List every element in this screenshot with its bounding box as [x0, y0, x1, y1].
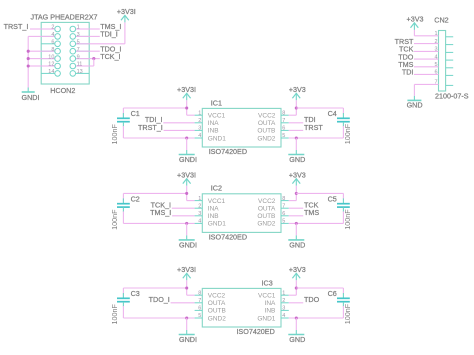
svg-text:100nF: 100nF	[110, 124, 119, 145]
svg-text:HCON2: HCON2	[50, 86, 75, 95]
wire TCK_I to pin 9	[89, 58, 100, 60]
svg-text:8: 8	[282, 196, 285, 202]
capacitor C1 top lead	[122, 108, 124, 118]
IC2 right pin 8 stub	[281, 200, 289, 202]
junction +3V3I left rail	[185, 286, 188, 289]
svg-text:+3V3I: +3V3I	[177, 85, 196, 94]
capacitor C3 top lead	[122, 288, 124, 298]
HCON2 pin 10 pad	[41, 58, 55, 60]
wire +3V3I rail to C2	[123, 192, 186, 194]
connector HCON2 body	[41, 22, 89, 84]
HCON2 pin 1 pad	[76, 28, 90, 30]
svg-text:OUTB: OUTB	[257, 128, 275, 135]
wire down to GNDI	[186, 318, 188, 330]
capacitor C3 bottom lead	[122, 302, 124, 307]
capacitor C5 plates	[337, 203, 350, 205]
junction GNDI left	[185, 316, 188, 319]
wire pin 12 to bus	[28, 65, 41, 67]
wire TDO to CN2 pin 4	[414, 58, 439, 60]
IC1 left pin 1 stub	[195, 114, 203, 116]
svg-text:OUTA: OUTA	[258, 206, 276, 213]
capacitor C1 plates	[117, 117, 130, 119]
svg-text:1: 1	[77, 25, 80, 31]
wire TDO to pin	[289, 302, 303, 304]
wire down to GNDI	[186, 223, 188, 235]
svg-text:8: 8	[51, 47, 54, 53]
svg-text:3: 3	[198, 211, 201, 217]
IC1 right pin 8 stub	[281, 114, 289, 116]
svg-text:9: 9	[77, 54, 80, 60]
HCON2 pin 4 pad	[41, 35, 55, 37]
svg-text:GND1: GND1	[208, 135, 226, 142]
ground GND (IC3 right)	[295, 330, 297, 335]
svg-text:VCC2: VCC2	[208, 293, 226, 300]
svg-text:INB: INB	[265, 308, 276, 315]
IC1 left pin 3 stub	[195, 129, 203, 131]
junction GND right	[295, 136, 298, 139]
IC2 left pin 2 stub	[195, 207, 203, 209]
CN2 pin 4 right stub	[446, 59, 454, 61]
wire TRST to pin	[289, 129, 303, 131]
junction GND right	[295, 316, 298, 319]
capacitor C2 top lead	[122, 193, 124, 203]
junction GND right	[295, 222, 298, 225]
wire C5 bottom to GND pin	[289, 222, 344, 224]
wire +3V3I rail to IC3 pin	[186, 280, 188, 295]
junction TCK_I branch	[92, 57, 95, 60]
ground GND under CN2	[413, 96, 415, 101]
wire C1 bottom to GND1 pin	[123, 137, 194, 139]
wire down to GND	[295, 318, 297, 330]
wire rail to C4	[296, 107, 343, 109]
wire TDI_I to pin	[163, 122, 194, 124]
wire rail to C6	[296, 287, 343, 289]
svg-text:TDI_I: TDI_I	[100, 30, 118, 39]
wire TDI_I to pin 3	[89, 35, 100, 37]
HCON2 pin 13 pad	[76, 72, 90, 74]
CN2 pin 5 right stub	[446, 67, 454, 69]
svg-text:VCC2: VCC2	[258, 198, 276, 205]
svg-text:5: 5	[282, 133, 285, 139]
ground GNDI (IC3 left)	[186, 330, 188, 335]
capacitor C2 plates	[117, 203, 130, 205]
svg-text:3: 3	[282, 306, 285, 312]
svg-text:14: 14	[48, 69, 54, 75]
svg-text:INB: INB	[208, 128, 219, 135]
svg-text:OUTB: OUTB	[257, 213, 275, 220]
capacitor C6 plates	[337, 297, 350, 299]
svg-text:TMS: TMS	[304, 208, 319, 217]
svg-text:1: 1	[282, 290, 285, 296]
wire TRST to CN2 pin 2	[414, 43, 439, 45]
HCON2 pin 9 pad	[76, 58, 90, 60]
capacitor C1 bottom lead	[122, 122, 124, 127]
svg-text:GND2: GND2	[208, 315, 226, 322]
svg-text:100nF: 100nF	[110, 209, 119, 230]
svg-text:+3V3I: +3V3I	[117, 7, 136, 16]
svg-text:5: 5	[282, 219, 285, 225]
IC3 left pin 5 stub	[195, 317, 203, 319]
svg-text:6: 6	[282, 126, 285, 132]
IC3 right pin 4 stub	[281, 317, 289, 319]
wire GNDI bus vertical	[27, 36, 29, 87]
wire +3V3I rail to IC2 pin	[186, 186, 188, 201]
IC2 right pin 7 stub	[281, 207, 289, 209]
svg-text:2: 2	[282, 298, 285, 304]
svg-text:VCC1: VCC1	[258, 293, 276, 300]
svg-text:+3V3I: +3V3I	[177, 265, 196, 274]
junction GNDI left	[185, 222, 188, 225]
svg-text:100nF: 100nF	[343, 303, 352, 324]
op IC IC3 body	[202, 288, 281, 327]
wire +3V3I rail to C1	[123, 107, 186, 109]
svg-text:TDI: TDI	[402, 68, 414, 77]
CN2 pin 6 right stub	[446, 74, 454, 76]
svg-text:C4: C4	[328, 109, 337, 118]
wire +3V3 to pin	[295, 186, 297, 201]
svg-text:+3V3: +3V3	[289, 170, 306, 179]
svg-text:GND: GND	[407, 100, 423, 109]
svg-text:8: 8	[198, 290, 201, 296]
svg-text:C3: C3	[131, 289, 140, 298]
svg-text:+3V3: +3V3	[289, 85, 306, 94]
svg-text:ISO7420ED: ISO7420ED	[209, 147, 247, 156]
svg-text:13: 13	[77, 69, 83, 75]
svg-text:TDO: TDO	[304, 295, 320, 304]
wire rail to C5	[296, 192, 343, 194]
wire +3V3 to pin	[295, 280, 297, 295]
svg-text:7: 7	[198, 298, 201, 304]
connector CN2 body	[439, 31, 446, 92]
svg-text:GND1: GND1	[257, 315, 275, 322]
svg-text:2: 2	[51, 25, 54, 31]
HCON2 pin 11 pad	[76, 65, 90, 67]
svg-text:JTAG PHEADER2X7: JTAG PHEADER2X7	[31, 13, 98, 22]
capacitor C5 top lead	[342, 193, 344, 199]
svg-text:3: 3	[77, 32, 80, 38]
IC1 left pin 2 stub	[195, 122, 203, 124]
svg-text:3: 3	[198, 126, 201, 132]
IC2 left pin 4 stub	[195, 222, 203, 224]
capacitor C6 bottom lead	[342, 302, 344, 307]
ground GND (IC2 right)	[295, 235, 297, 240]
wire TDI to pin	[289, 122, 303, 124]
svg-text:6: 6	[282, 211, 285, 217]
HCON2 pin 2 pad	[41, 28, 55, 30]
svg-text:TRST_I: TRST_I	[138, 123, 163, 132]
wire down to GNDI	[186, 138, 188, 150]
wire TDI to CN2 pin 6	[414, 73, 439, 75]
wire TMS to pin	[289, 215, 303, 217]
junction bus/pin12	[27, 64, 30, 67]
wire TMS to CN2 pin 5	[414, 66, 439, 68]
svg-text:VCC1: VCC1	[208, 113, 226, 120]
HCON2 pin 6 pad	[41, 43, 55, 45]
svg-text:GNDI: GNDI	[179, 155, 197, 164]
svg-text:5: 5	[198, 313, 201, 319]
IC1 right pin 6 stub	[281, 129, 289, 131]
junction bus/pin8	[27, 50, 30, 53]
svg-text:VCC2: VCC2	[258, 113, 276, 120]
svg-text:2: 2	[198, 118, 201, 124]
svg-text:IC1: IC1	[211, 98, 222, 107]
svg-text:5: 5	[77, 40, 80, 46]
svg-text:ISO7420ED: ISO7420ED	[209, 232, 247, 241]
wire down to GND	[295, 223, 297, 235]
wire C4 bottom to GND pin	[289, 137, 344, 139]
svg-text:4: 4	[198, 133, 201, 139]
wire pin 4 to bus	[28, 35, 41, 37]
svg-text:GND1: GND1	[208, 221, 226, 228]
HCON2 pin 5 pad	[76, 43, 90, 45]
wire TMS_I to pin	[172, 215, 195, 217]
IC1 right pin 7 stub	[281, 122, 289, 124]
svg-text:C2: C2	[131, 195, 140, 204]
IC2 left pin 1 stub	[195, 200, 203, 202]
svg-text:INB: INB	[208, 213, 219, 220]
capacitor C3 plates	[117, 297, 130, 299]
svg-text:2100-07-S: 2100-07-S	[435, 91, 469, 100]
svg-text:+3V3: +3V3	[407, 15, 424, 24]
svg-text:8: 8	[282, 110, 285, 116]
IC1 right pin 5 stub	[281, 137, 289, 139]
CN2 pin 7 right stub	[446, 84, 454, 86]
junction +3V3 right rail	[295, 286, 298, 289]
svg-text:GNDI: GNDI	[179, 335, 197, 344]
svg-text:100nF: 100nF	[343, 123, 352, 144]
svg-text:VCC1: VCC1	[208, 198, 226, 205]
wire TDO_I to pin 7	[89, 50, 100, 52]
svg-text:GND: GND	[289, 155, 305, 164]
svg-text:GND2: GND2	[257, 135, 275, 142]
wire +3V3 to pin	[295, 100, 297, 115]
svg-text:GND2: GND2	[257, 221, 275, 228]
IC3 right pin 1 stub	[281, 294, 289, 296]
IC1 left pin 4 stub	[195, 137, 203, 139]
wire C6 bottom to GND pin	[289, 317, 344, 319]
wire +3V3 to CN2 pin 1	[413, 30, 415, 36]
svg-text:GND: GND	[289, 335, 305, 344]
IC3 left pin 8 stub	[195, 294, 203, 296]
capacitor C6 top lead	[342, 288, 344, 294]
svg-text:GNDI: GNDI	[179, 240, 197, 249]
svg-text:ISO7420ED: ISO7420ED	[236, 327, 274, 336]
svg-text:2: 2	[198, 203, 201, 209]
IC2 left pin 3 stub	[195, 215, 203, 217]
wire TRST_I to pin 2	[30, 28, 41, 30]
IC3 right pin 3 stub	[281, 309, 289, 311]
junction +3V3 right rail	[295, 106, 298, 109]
svg-text:7: 7	[282, 203, 285, 209]
wire TRST_I to pin	[164, 129, 195, 131]
ground GND (IC1 right)	[295, 150, 297, 155]
svg-text:GNDI: GNDI	[22, 93, 40, 102]
wire TDO_I to pin	[171, 302, 195, 304]
wire TMS_I to pin 1	[89, 28, 100, 30]
svg-text:4: 4	[282, 313, 285, 319]
junction bus/pin10	[27, 57, 30, 60]
wire down to GND	[295, 138, 297, 150]
capacitor C5 bottom lead	[342, 207, 344, 212]
svg-text:+3V3: +3V3	[289, 265, 306, 274]
ground GNDI (IC2 left)	[186, 235, 188, 240]
svg-text:C1: C1	[131, 109, 140, 118]
IC3 right pin 2 stub	[281, 302, 289, 304]
wire pin 8 to bus	[28, 50, 41, 52]
op IC IC2 body	[202, 194, 281, 233]
svg-text:IC2: IC2	[211, 184, 222, 193]
svg-text:4: 4	[51, 32, 54, 38]
svg-text:100nF: 100nF	[343, 209, 352, 230]
wire pin 10 to bus	[28, 58, 41, 60]
svg-text:INA: INA	[265, 300, 277, 307]
wire C3 bottom to GND1 pin	[123, 317, 194, 319]
svg-text:INA: INA	[208, 206, 220, 213]
svg-text:7: 7	[77, 47, 80, 53]
svg-text:4: 4	[198, 219, 201, 225]
capacitor C4 bottom lead	[342, 122, 344, 127]
wire CN2 pin 7 to GND	[414, 83, 438, 85]
svg-text:TRST: TRST	[304, 123, 323, 132]
junction +3V3I left rail	[185, 192, 188, 195]
svg-text:CN2: CN2	[434, 16, 448, 25]
svg-text:INA: INA	[208, 120, 220, 127]
ground GNDI under header	[27, 88, 29, 93]
HCON2 pin 14 pad	[41, 72, 55, 74]
junction +3V3I left rail	[185, 106, 188, 109]
CN2 pin 2 right stub	[446, 44, 454, 46]
svg-text:OUTB: OUTB	[208, 308, 226, 315]
HCON2 pin 3 pad	[76, 35, 90, 37]
wire TCK_I to pin	[172, 207, 195, 209]
svg-text:11: 11	[77, 62, 83, 68]
svg-text:10: 10	[48, 54, 54, 60]
junction +3V3 right rail	[295, 192, 298, 195]
svg-text:C5: C5	[328, 195, 337, 204]
svg-text:TDO_I: TDO_I	[149, 295, 170, 304]
IC2 right pin 5 stub	[281, 222, 289, 224]
svg-text:OUTA: OUTA	[258, 120, 276, 127]
wire +3V3I to pin 5	[124, 22, 126, 43]
svg-text:TMS_I: TMS_I	[150, 208, 171, 217]
op IC IC1 body	[202, 108, 281, 147]
svg-text:1: 1	[198, 196, 201, 202]
svg-text:6: 6	[198, 306, 201, 312]
svg-text:100nF: 100nF	[110, 304, 119, 325]
svg-text:IC3: IC3	[262, 278, 273, 287]
svg-text:OUTA: OUTA	[208, 300, 226, 307]
IC3 left pin 6 stub	[195, 309, 203, 311]
svg-text:C6: C6	[328, 289, 337, 298]
svg-text:TCK_I: TCK_I	[100, 52, 120, 61]
IC3 left pin 7 stub	[195, 302, 203, 304]
ground GNDI (IC1 left)	[186, 150, 188, 155]
IC2 right pin 6 stub	[281, 215, 289, 217]
wire +3V3I rail to IC1 pin	[186, 100, 188, 115]
capacitor C2 bottom lead	[122, 207, 124, 212]
HCON2 pin 8 pad	[41, 50, 55, 52]
svg-text:7: 7	[282, 118, 285, 124]
svg-text:12: 12	[48, 62, 54, 68]
wire TCK to pin	[289, 207, 303, 209]
wire C2 bottom to GND1 pin	[123, 222, 194, 224]
svg-text:TRST_I: TRST_I	[4, 22, 29, 31]
svg-text:+3V3I: +3V3I	[177, 170, 196, 179]
svg-text:GND: GND	[289, 240, 305, 249]
wire TCK_I branch to pin 11	[93, 59, 95, 66]
HCON2 pin 7 pad	[76, 50, 90, 52]
svg-text:6: 6	[51, 40, 54, 46]
wire TCK to CN2 pin 3	[414, 50, 439, 52]
CN2 pin 1 right stub	[446, 36, 454, 38]
capacitor C4 plates	[337, 117, 350, 119]
svg-text:1: 1	[198, 110, 201, 116]
HCON2 pin 12 pad	[41, 65, 55, 67]
CN2 pin 3 right stub	[446, 51, 454, 53]
wire +3V3I rail to C3	[123, 287, 186, 289]
capacitor C4 top lead	[342, 108, 344, 114]
junction GNDI left	[185, 136, 188, 139]
